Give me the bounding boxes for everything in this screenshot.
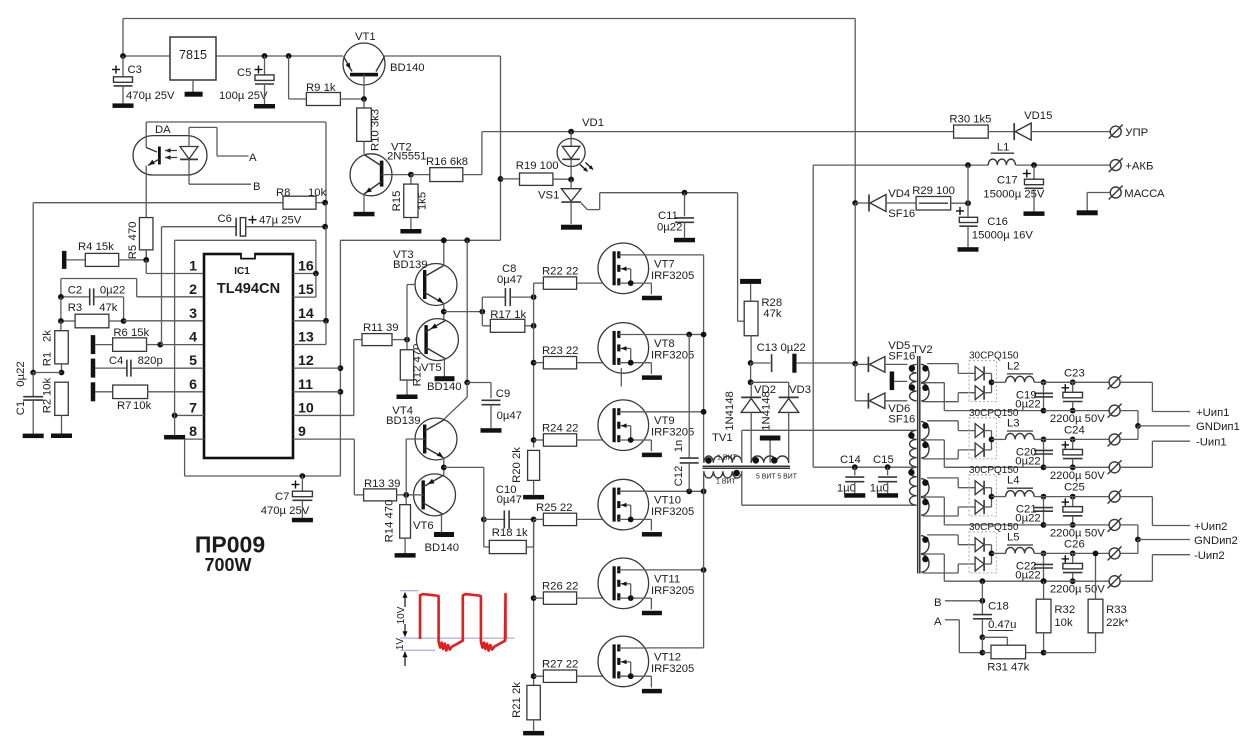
svg-text:L5: L5 — [1007, 531, 1020, 543]
terminal group1 minus — [1108, 404, 1122, 418]
label title ПР009 700W — [195, 532, 265, 576]
node R29 out — [965, 200, 971, 206]
svg-text:R21 2k: R21 2k — [511, 682, 523, 718]
wire -Uip2 — [1120, 550, 1225, 581]
svg-text:C25: C25 — [1064, 482, 1085, 494]
node VT1 base — [361, 96, 367, 102]
resistor R24 22 — [531, 423, 614, 447]
svg-text:3: 3 — [189, 306, 197, 322]
svg-text:5 ВИТ 5 ВИТ: 5 ВИТ 5 ВИТ — [756, 474, 798, 481]
wire VT5 collector — [443, 359, 445, 377]
transistor VT8 IRF3205 — [598, 323, 694, 380]
svg-text:C15: C15 — [873, 454, 894, 466]
capacitor C16 15000u — [956, 203, 1033, 241]
wire VT3 emitter node — [441, 304, 482, 321]
svg-text:R22 22: R22 22 — [542, 266, 578, 278]
diode VD2 1N4148 — [724, 382, 776, 463]
rectifier 30CPQ150 group3 — [969, 465, 1019, 516]
TV2 secondary S2 — [921, 421, 1044, 468]
wire +15V rail — [123, 55, 343, 57]
svg-text:ПР009: ПР009 — [195, 532, 265, 558]
inductor L1 — [988, 142, 1015, 166]
bar R28 top — [740, 279, 761, 301]
svg-text:BD139: BD139 — [393, 259, 428, 271]
svg-text:1 ВИТ: 1 ВИТ — [716, 479, 737, 486]
diode VD3 1N4148 — [761, 382, 811, 463]
svg-text:A: A — [934, 616, 942, 628]
TV2 core — [918, 356, 920, 574]
capacitor C26 2200u — [1050, 538, 1105, 595]
TV2 primary P2 — [908, 430, 916, 467]
resistor R28 47k — [744, 297, 782, 336]
waveform axis 1V — [395, 638, 408, 666]
svg-text:0µ22: 0µ22 — [657, 222, 682, 234]
ground C16 — [958, 226, 979, 252]
svg-text:R19 100: R19 100 — [516, 160, 559, 172]
terminal group2 plus — [1108, 432, 1122, 446]
wire VD1 rail — [482, 131, 954, 133]
node VS1 anode — [568, 177, 574, 183]
wire group4 plus rail — [1044, 552, 1110, 554]
svg-text:820p: 820p — [138, 355, 163, 367]
svg-text:1: 1 — [189, 259, 197, 275]
ground VT5 — [435, 376, 455, 381]
node VT3 collector — [441, 237, 447, 243]
svg-text:TV2: TV2 — [912, 344, 933, 356]
resistor R11 39 — [354, 322, 407, 346]
inductor L5 — [992, 531, 1035, 553]
capacitor C15 1u0 — [870, 454, 897, 495]
capacitor C19 0u22 — [1015, 379, 1053, 413]
wire VT11 drain — [648, 567, 706, 573]
svg-text:R7: R7 — [117, 400, 131, 412]
svg-text:TL494CN: TL494CN — [217, 281, 280, 297]
wire group1 plus rail — [1044, 381, 1110, 383]
svg-text:4: 4 — [189, 329, 197, 345]
waveform guides — [400, 591, 514, 651]
svg-text:R15: R15 — [391, 191, 403, 212]
svg-text:10k: 10k — [42, 378, 54, 397]
svg-text:0µ22: 0µ22 — [15, 361, 27, 386]
svg-text:VT1: VT1 — [355, 31, 376, 43]
svg-text:0.47u: 0.47u — [988, 619, 1016, 631]
svg-text:R33: R33 — [1106, 604, 1127, 616]
svg-text:L1: L1 — [997, 142, 1010, 154]
svg-text:VT8: VT8 — [654, 338, 675, 350]
wire +Uip2 — [1120, 497, 1227, 533]
node C18 bottom — [980, 634, 1008, 655]
wire to R28 — [738, 193, 745, 322]
svg-text:1n: 1n — [673, 440, 685, 453]
svg-text:L2: L2 — [1007, 360, 1020, 372]
TV2 secondary S3 — [921, 478, 1044, 525]
capacitor C23 2200u — [1050, 367, 1105, 425]
svg-text:0µ47: 0µ47 — [497, 410, 522, 422]
ground VS1 — [561, 225, 582, 230]
ground C5 — [254, 84, 275, 109]
svg-text:0µ22: 0µ22 — [1015, 455, 1040, 467]
svg-text:C23: C23 — [1064, 367, 1085, 379]
svg-text:VD15: VD15 — [1024, 110, 1052, 122]
capacitor C3 — [112, 56, 175, 102]
svg-text:7815: 7815 — [179, 48, 207, 62]
wire group3 minus rail — [1044, 524, 1110, 526]
resistor R20 2k — [511, 447, 540, 483]
TV2 primary P3 — [908, 467, 916, 505]
svg-text:1N4148: 1N4148 — [761, 391, 773, 431]
svg-text:+Uип1: +Uип1 — [1196, 407, 1229, 419]
svg-text:1N4148: 1N4148 — [724, 391, 736, 431]
capacitor C17 15000u — [983, 165, 1045, 200]
svg-text:0µ22: 0µ22 — [1015, 513, 1040, 525]
svg-text:МАССА: МАССА — [1124, 188, 1165, 200]
svg-text:IRF3205: IRF3205 — [651, 270, 694, 282]
ground C9 — [481, 405, 502, 433]
svg-text:5: 5 — [189, 353, 197, 369]
rectifier 30CPQ150 group2 — [969, 408, 1019, 459]
LED VD1 — [557, 132, 593, 180]
svg-text:R4 15k: R4 15k — [78, 241, 114, 253]
terminal +AKB — [1109, 158, 1154, 172]
TV2 center tap bar — [890, 372, 908, 391]
wire VT6 collector — [441, 514, 443, 532]
ground R15 — [400, 218, 421, 234]
svg-text:R11 39: R11 39 — [363, 322, 399, 334]
svg-text:BD140: BD140 — [425, 542, 460, 554]
wire AKB rail — [813, 165, 1110, 467]
ground R21 — [523, 720, 544, 736]
svg-text:100µ 25V: 100µ 25V — [219, 90, 268, 102]
svg-text:R1: R1 — [42, 352, 54, 366]
wire C14 C15 feed — [813, 466, 916, 468]
transformer TV1 label — [712, 432, 733, 444]
capacitor C8 0u47 — [482, 263, 533, 312]
svg-text:BD140: BD140 — [427, 381, 462, 393]
svg-text:0µ22: 0µ22 — [100, 285, 125, 297]
waveform red trace — [420, 594, 506, 651]
svg-text:2200µ 50V: 2200µ 50V — [1050, 413, 1105, 425]
resistor R14 470 — [384, 495, 411, 542]
svg-text:-Uип2: -Uип2 — [1194, 550, 1225, 562]
wire VT1 collector to x500 — [384, 56, 501, 179]
node bus R17 — [531, 323, 537, 329]
svg-text:14: 14 — [298, 306, 314, 322]
svg-text:C18: C18 — [988, 601, 1009, 613]
node C13 left — [748, 360, 754, 366]
svg-text:0µ47: 0µ47 — [497, 274, 522, 286]
node AKB left — [965, 162, 971, 203]
svg-text:470µ 25V: 470µ 25V — [126, 90, 175, 102]
svg-text:C3: C3 — [128, 64, 142, 76]
svg-text:10V: 10V — [396, 606, 407, 624]
wire top rail from C3 to VD4 node — [123, 19, 855, 204]
svg-text:VT5: VT5 — [421, 362, 442, 374]
node drive2 — [481, 467, 487, 522]
svg-text:VT7: VT7 — [654, 258, 675, 270]
svg-text:0µ22: 0µ22 — [1015, 569, 1040, 581]
capacitor C25 2200u — [1050, 482, 1105, 540]
node supply x467 — [464, 237, 470, 385]
ground C3 — [113, 86, 134, 108]
wire group2 plus rail — [1044, 438, 1110, 440]
wire VT10 drain — [648, 488, 706, 494]
node R3 right — [121, 318, 127, 324]
resistor R15 1k5 — [391, 175, 429, 218]
capacitor C14 1u0 — [837, 454, 864, 495]
wire pin9 to R13 — [293, 439, 364, 495]
wire node B — [189, 159, 261, 193]
svg-text:R10 3k3: R10 3k3 — [370, 109, 382, 151]
transistor VT1 BD140 — [343, 31, 425, 99]
svg-text:R9 1k: R9 1k — [306, 82, 336, 94]
node R9 tap — [286, 53, 292, 59]
capacitor C22 0u22 — [1015, 551, 1053, 585]
svg-text:A: A — [249, 152, 257, 164]
resistor R4 15k — [62, 241, 146, 269]
gate bus lower — [533, 519, 535, 685]
svg-text:B: B — [253, 181, 261, 193]
svg-text:УПР: УПР — [1125, 127, 1148, 139]
drain bus lower — [703, 478, 705, 648]
svg-text:L3: L3 — [1007, 417, 1020, 429]
svg-text:2k: 2k — [42, 330, 54, 342]
svg-text:VT11: VT11 — [654, 573, 680, 585]
wire gnd rail to pin7 — [175, 240, 316, 415]
regulator 7815 — [170, 37, 216, 80]
wire group4 minus rail — [1044, 580, 1110, 582]
svg-text:15000µ 25V: 15000µ 25V — [983, 189, 1045, 201]
svg-text:11: 11 — [298, 377, 313, 393]
svg-text:R31 47k: R31 47k — [987, 662, 1029, 674]
wire VT4 emitter node — [441, 458, 484, 476]
svg-text:6: 6 — [189, 377, 197, 393]
resistor R30 1k5 — [949, 114, 1014, 139]
ground VT6 — [434, 532, 454, 537]
resistor R32 10k — [1036, 578, 1075, 655]
wire pin8 C7 bottom — [185, 475, 341, 477]
svg-text:VD1: VD1 — [582, 117, 604, 129]
node bus C8 — [531, 294, 537, 300]
svg-text:15: 15 — [298, 282, 314, 298]
transistor VT12 IRF3205 — [598, 636, 694, 693]
svg-text:GNDип1: GNDип1 — [1196, 421, 1240, 433]
resistor R18 1k — [484, 519, 534, 553]
svg-text:BD140: BD140 — [390, 62, 425, 74]
wire GNDip2 — [1120, 525, 1238, 554]
terminal MASSA — [1087, 186, 1165, 211]
node C3 junction — [120, 53, 126, 59]
svg-text:BD139: BD139 — [386, 415, 421, 427]
svg-text:C12: C12 — [673, 466, 685, 487]
svg-text:1V: 1V — [395, 638, 406, 651]
capacitor C12 1n — [673, 335, 699, 492]
terminal UPR — [1109, 125, 1148, 139]
capacitor C4 820p — [95, 355, 204, 377]
node R1 R2 — [30, 370, 64, 376]
capacitor C7 470u — [261, 473, 313, 517]
node C6 right — [322, 224, 328, 321]
transistor VT5 BD140 — [416, 319, 461, 393]
wire VT12 drain — [648, 647, 704, 649]
resistor R29 100 — [912, 185, 968, 210]
svg-text:VD4: VD4 — [888, 188, 910, 200]
label VS1 — [538, 189, 559, 201]
svg-text:R14 470: R14 470 — [384, 500, 396, 543]
svg-text:2200µ 50V: 2200µ 50V — [1050, 584, 1105, 596]
terminal group1 plus — [1108, 375, 1122, 389]
svg-text:C26: C26 — [1064, 538, 1085, 550]
ground C11 — [674, 222, 695, 242]
svg-text:47k: 47k — [99, 302, 118, 314]
capacitor C24 2200u — [1050, 424, 1105, 481]
svg-text:C11: C11 — [658, 210, 678, 222]
svg-text:SF16: SF16 — [888, 414, 915, 426]
wire pin3 — [124, 320, 204, 322]
wire DA emitter — [145, 175, 147, 260]
transistor VT10 IRF3205 — [598, 479, 694, 536]
terminal group4 plus — [1108, 546, 1122, 560]
svg-text:R20 2k: R20 2k — [511, 447, 523, 483]
svg-text:R8: R8 — [276, 187, 290, 199]
svg-text:C16: C16 — [987, 216, 1008, 228]
svg-text:0µ22: 0µ22 — [1015, 398, 1040, 410]
wire VT7 drain — [648, 255, 704, 460]
svg-text:IC1: IC1 — [234, 266, 250, 277]
svg-text:IRF3205: IRF3205 — [651, 349, 694, 361]
potentiometer R31 47k — [982, 637, 1043, 673]
wire VT8 drain — [648, 332, 706, 338]
svg-text:-Uип1: -Uип1 — [1196, 437, 1227, 449]
svg-text:R24 22: R24 22 — [542, 423, 578, 435]
wire VT4 collector jog — [444, 383, 468, 422]
TV1 core — [703, 466, 791, 468]
TV1 primary upper 1VIT — [704, 430, 742, 463]
svg-text:GNDип2: GNDип2 — [1194, 535, 1238, 547]
resistor R16 6k8 — [411, 132, 482, 182]
svg-text:C14: C14 — [840, 454, 861, 466]
node VD4 — [852, 200, 858, 206]
transformer TV2 label — [912, 344, 933, 356]
wire group3 plus rail — [1044, 496, 1110, 498]
TV1 center tap ground — [760, 436, 781, 463]
TV2 secondary S1 — [921, 364, 1044, 411]
node drive1 — [479, 309, 485, 315]
transistor VT9 IRF3205 — [598, 400, 694, 457]
svg-text:R25 22: R25 22 — [536, 502, 572, 514]
wire pin7 ground — [164, 413, 204, 440]
node L1 out — [1031, 162, 1037, 168]
diode VD4 SF16 — [855, 188, 916, 220]
wire group2 minus rail — [1044, 466, 1110, 468]
svg-text:VT6: VT6 — [413, 520, 434, 532]
svg-text:47µ 25V: 47µ 25V — [259, 215, 302, 227]
svg-text:VT9: VT9 — [654, 415, 675, 427]
transistor VT3 BD139 — [393, 249, 457, 306]
wire -Uip1 — [1120, 437, 1227, 468]
IC U1 TL494CN — [204, 252, 293, 458]
svg-text:47k: 47k — [763, 308, 782, 320]
wire pin1 — [146, 260, 204, 274]
ground R14 — [395, 538, 416, 558]
svg-text:+Uип2: +Uип2 — [1194, 521, 1227, 533]
ground C14 — [844, 482, 865, 498]
svg-text:R18 1k: R18 1k — [492, 527, 528, 539]
svg-text:7: 7 — [189, 400, 197, 416]
inductor L2 — [992, 360, 1035, 382]
resistor R26 22 — [531, 581, 614, 605]
IC pin numbers — [189, 259, 314, 441]
gate bus upper — [533, 283, 535, 447]
thyristor VS1 — [561, 180, 599, 225]
wire VT3 base — [407, 285, 425, 340]
ground R2 — [51, 434, 72, 439]
resistor R3 47k — [61, 302, 124, 328]
rectifier 30CPQ150 group1 — [969, 351, 1019, 402]
inductor L3 — [992, 417, 1035, 439]
node R13 out — [403, 439, 424, 498]
svg-text:1 ВИТ: 1 ВИТ — [717, 455, 738, 462]
node C18 top — [980, 578, 986, 584]
svg-text:IRF3205: IRF3205 — [651, 506, 694, 518]
svg-text:R30 1k5: R30 1k5 — [949, 114, 991, 126]
svg-text:C7: C7 — [275, 491, 289, 503]
wire pins11 12 supply bus — [293, 240, 343, 476]
rectifier 30CPQ150 group4 — [969, 522, 1019, 573]
svg-text:IRF3205: IRF3205 — [651, 663, 694, 675]
resistor R19 100 — [498, 160, 571, 185]
svg-text:R6 15k: R6 15k — [113, 327, 149, 339]
wire pins15 16 tie — [293, 240, 319, 297]
svg-text:R2: R2 — [42, 399, 54, 413]
wire pin8 — [185, 439, 204, 476]
wire +Uip1 — [1120, 382, 1229, 419]
resistor R22 22 — [534, 266, 615, 290]
svg-text:B: B — [934, 597, 942, 609]
ground C15 — [877, 482, 898, 498]
svg-text:1µ0: 1µ0 — [870, 483, 889, 495]
svg-text:0µ47: 0µ47 — [497, 494, 522, 506]
resistor R9 1k — [289, 56, 364, 106]
stray line under VT8 — [620, 368, 622, 387]
capacitor C5 — [219, 56, 274, 102]
ground R20 — [523, 480, 544, 499]
node pin4 — [157, 342, 204, 348]
node bus C10 — [531, 517, 537, 523]
resistor R25 22 — [534, 502, 615, 526]
svg-text:10k: 10k — [308, 187, 327, 199]
svg-text:1k5: 1k5 — [417, 192, 429, 210]
svg-text:IRF3205: IRF3205 — [651, 585, 694, 597]
TV2 secondary S4 — [921, 535, 1044, 581]
TV2 primary P1 — [909, 364, 917, 400]
wire pin14 vref — [293, 318, 329, 345]
capacitor C21 0u22 — [1015, 494, 1053, 528]
wire TV1 upper to TV2 — [742, 429, 915, 431]
optocoupler DA — [133, 122, 207, 175]
svg-text:R13 39: R13 39 — [364, 478, 400, 490]
wire GNDip1 — [1120, 411, 1240, 440]
svg-text:DA: DA — [155, 124, 171, 136]
ground C7 — [292, 500, 313, 522]
svg-text:C24: C24 — [1064, 424, 1085, 436]
svg-text:C17: C17 — [997, 175, 1018, 187]
TV1 lower winding 1VIT — [704, 470, 742, 506]
svg-text:R17 1k: R17 1k — [490, 309, 526, 321]
capacitor C6 47u — [162, 213, 327, 236]
wire node A — [189, 127, 257, 164]
svg-text:+АКБ: +АКБ — [1125, 161, 1153, 173]
svg-text:R27 22: R27 22 — [542, 659, 578, 671]
